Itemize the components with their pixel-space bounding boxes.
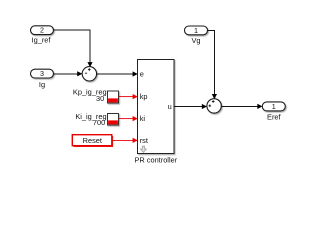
wire Ki to ki bbox=[119, 116, 138, 121]
subsystem PR controller bbox=[138, 60, 175, 154]
svg-text:Eref: Eref bbox=[267, 112, 282, 121]
subsystem badge arrow bbox=[140, 146, 146, 152]
svg-text:Ig: Ig bbox=[39, 80, 45, 89]
wire Sum2 to Eref bbox=[221, 104, 262, 109]
constant Kp_ig_reg bbox=[108, 91, 119, 103]
constant Reset bbox=[72, 135, 113, 147]
constant Ki_ig_reg bbox=[108, 114, 119, 126]
svg-text:kp: kp bbox=[140, 92, 148, 101]
svg-text:rst: rst bbox=[140, 136, 148, 145]
svg-text:1: 1 bbox=[194, 26, 198, 35]
inport 1 (Vg) bbox=[185, 26, 208, 35]
svg-text:Vg: Vg bbox=[191, 36, 200, 45]
sum block Sum2 bbox=[207, 99, 221, 113]
svg-text:e: e bbox=[140, 70, 144, 79]
inport 3 (Ig) bbox=[31, 69, 54, 78]
wire Vg to Sum2 bbox=[208, 30, 218, 99]
svg-text:Reset: Reset bbox=[83, 136, 102, 145]
svg-text:1: 1 bbox=[272, 102, 276, 111]
wire Kp to kp bbox=[119, 94, 138, 99]
svg-text:700: 700 bbox=[93, 118, 105, 127]
svg-text:2: 2 bbox=[40, 26, 44, 35]
svg-text:PR controller: PR controller bbox=[134, 156, 177, 165]
wire Reset to rst bbox=[113, 138, 138, 143]
wire Sum1 to e bbox=[97, 71, 138, 76]
svg-text:ki: ki bbox=[140, 114, 146, 123]
outport 1 (Eref) bbox=[262, 102, 285, 111]
inport 2 (Ig_ref) bbox=[31, 26, 54, 35]
svg-text:u: u bbox=[168, 102, 172, 111]
svg-text:3: 3 bbox=[40, 69, 44, 78]
svg-text:30: 30 bbox=[96, 94, 104, 103]
wire Ig_ref to Sum1 bbox=[54, 30, 93, 67]
svg-text:Ig_ref: Ig_ref bbox=[32, 35, 52, 44]
wire Ig to Sum1 bbox=[54, 71, 83, 76]
sum block Sum1 bbox=[82, 67, 96, 81]
wire u to Sum2 bbox=[174, 104, 207, 109]
